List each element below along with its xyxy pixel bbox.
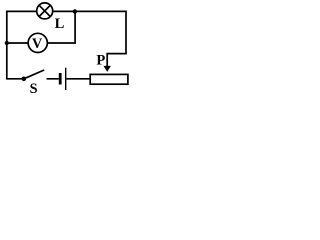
svg-text:V: V — [32, 36, 43, 52]
svg-text:L: L — [55, 16, 65, 32]
svg-text:S: S — [30, 81, 38, 97]
svg-text:P: P — [96, 53, 105, 69]
